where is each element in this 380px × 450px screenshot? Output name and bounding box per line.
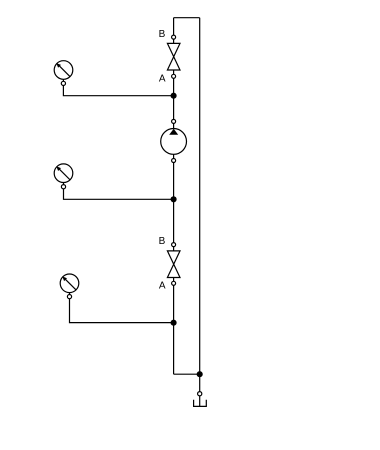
svg-text:B: B	[159, 29, 166, 40]
svg-text:B: B	[159, 236, 166, 247]
svg-text:A: A	[159, 73, 166, 84]
svg-text:A: A	[159, 281, 166, 292]
